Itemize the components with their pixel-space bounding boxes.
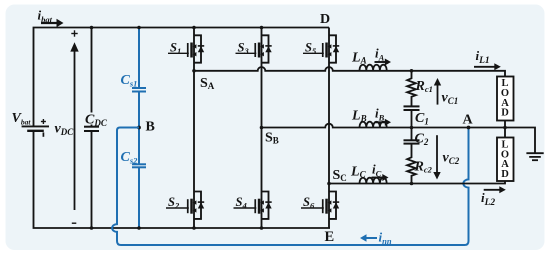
junction rail B at LOAD1 [503, 126, 507, 130]
capacitor Cs2 (blue) [138, 128, 140, 229]
junction top rail at CDC [90, 26, 94, 30]
wire: blue neutral link from node B to node A (i_nn path) [112, 128, 468, 246]
junction bottom rail at CDC [90, 226, 94, 230]
transistor S6 [322, 192, 339, 219]
junction rail C at leg3 [327, 182, 331, 186]
capacitor CDC [91, 28, 93, 229]
junction top rail at leg1 [192, 26, 196, 30]
junction top rail at leg2 [260, 26, 264, 30]
transistor S4 [254, 192, 271, 219]
wire: phase A rail (with hops over legs 2,3) [194, 67, 505, 76]
svg-text:D: D [501, 169, 509, 180]
svg-text:B: B [146, 120, 155, 135]
svg-text:E: E [325, 229, 335, 245]
wire: phase C rail [329, 181, 505, 184]
inductor LC [360, 178, 387, 183]
wire: bottom DC rail [34, 132, 331, 229]
junction rail B at leg2 [260, 126, 264, 130]
transistor S1 [187, 35, 204, 62]
voltage arrow vDC [74, 49, 76, 210]
junction bottom rail at leg2 [260, 226, 264, 230]
load block LOAD2 [497, 138, 514, 182]
capacitor C1 [404, 105, 420, 107]
transistor S3 [254, 35, 271, 62]
wire: phase B rail (with hop over leg 3) [262, 124, 536, 153]
junction bottom rail at leg1 [192, 226, 196, 230]
wire: top DC rail (node D rail) [34, 28, 330, 127]
wire: leg 1 vertical (S1/S2) [193, 28, 195, 229]
resistor Rc1 [407, 71, 416, 107]
wire: leg 2 vertical (S3/S4) [261, 28, 263, 229]
svg-text:D: D [501, 108, 509, 119]
current arrow i_A [375, 61, 386, 63]
capacitor Cs1 (blue) [138, 28, 140, 128]
capacitor C2 [411, 128, 413, 141]
junction rail B at C1 [410, 126, 414, 130]
battery Vbat [22, 125, 49, 127]
voltage arrow vC1 [437, 84, 439, 105]
current arrow i_C [372, 177, 384, 179]
node A junction [467, 126, 471, 130]
svg-text:A: A [463, 113, 474, 128]
wire: LOAD1 bottom stub [504, 121, 506, 128]
current arrow i_L2 [484, 189, 500, 191]
junction rail A at Rc1 [410, 69, 414, 73]
ground symbol [526, 152, 543, 154]
junction rail C at Rc2 [410, 182, 414, 186]
voltage arrow vC2 [436, 135, 438, 173]
inductor LA [360, 65, 387, 70]
wire: LOAD2 top stub [504, 128, 506, 138]
inductor LB [360, 122, 387, 127]
current arrow i_nn (blue) [366, 237, 377, 239]
junction bottom rail at Cs2 [137, 226, 141, 230]
resistor Rc2 [407, 144, 416, 184]
junction top rail at Cs1 [137, 26, 141, 30]
junction rail A at leg1 [192, 69, 196, 73]
current arrow i_B [375, 121, 386, 123]
wire: leg 3 vertical (S5/S6) [328, 28, 330, 229]
transistor S5 [322, 35, 339, 62]
node B junction [137, 126, 141, 130]
svg-text:D: D [320, 12, 330, 27]
current arrow i_L1 [474, 66, 495, 68]
current arrow i_bat [41, 22, 58, 24]
transistor S2 [187, 192, 204, 219]
load block LOAD1 [497, 77, 514, 121]
